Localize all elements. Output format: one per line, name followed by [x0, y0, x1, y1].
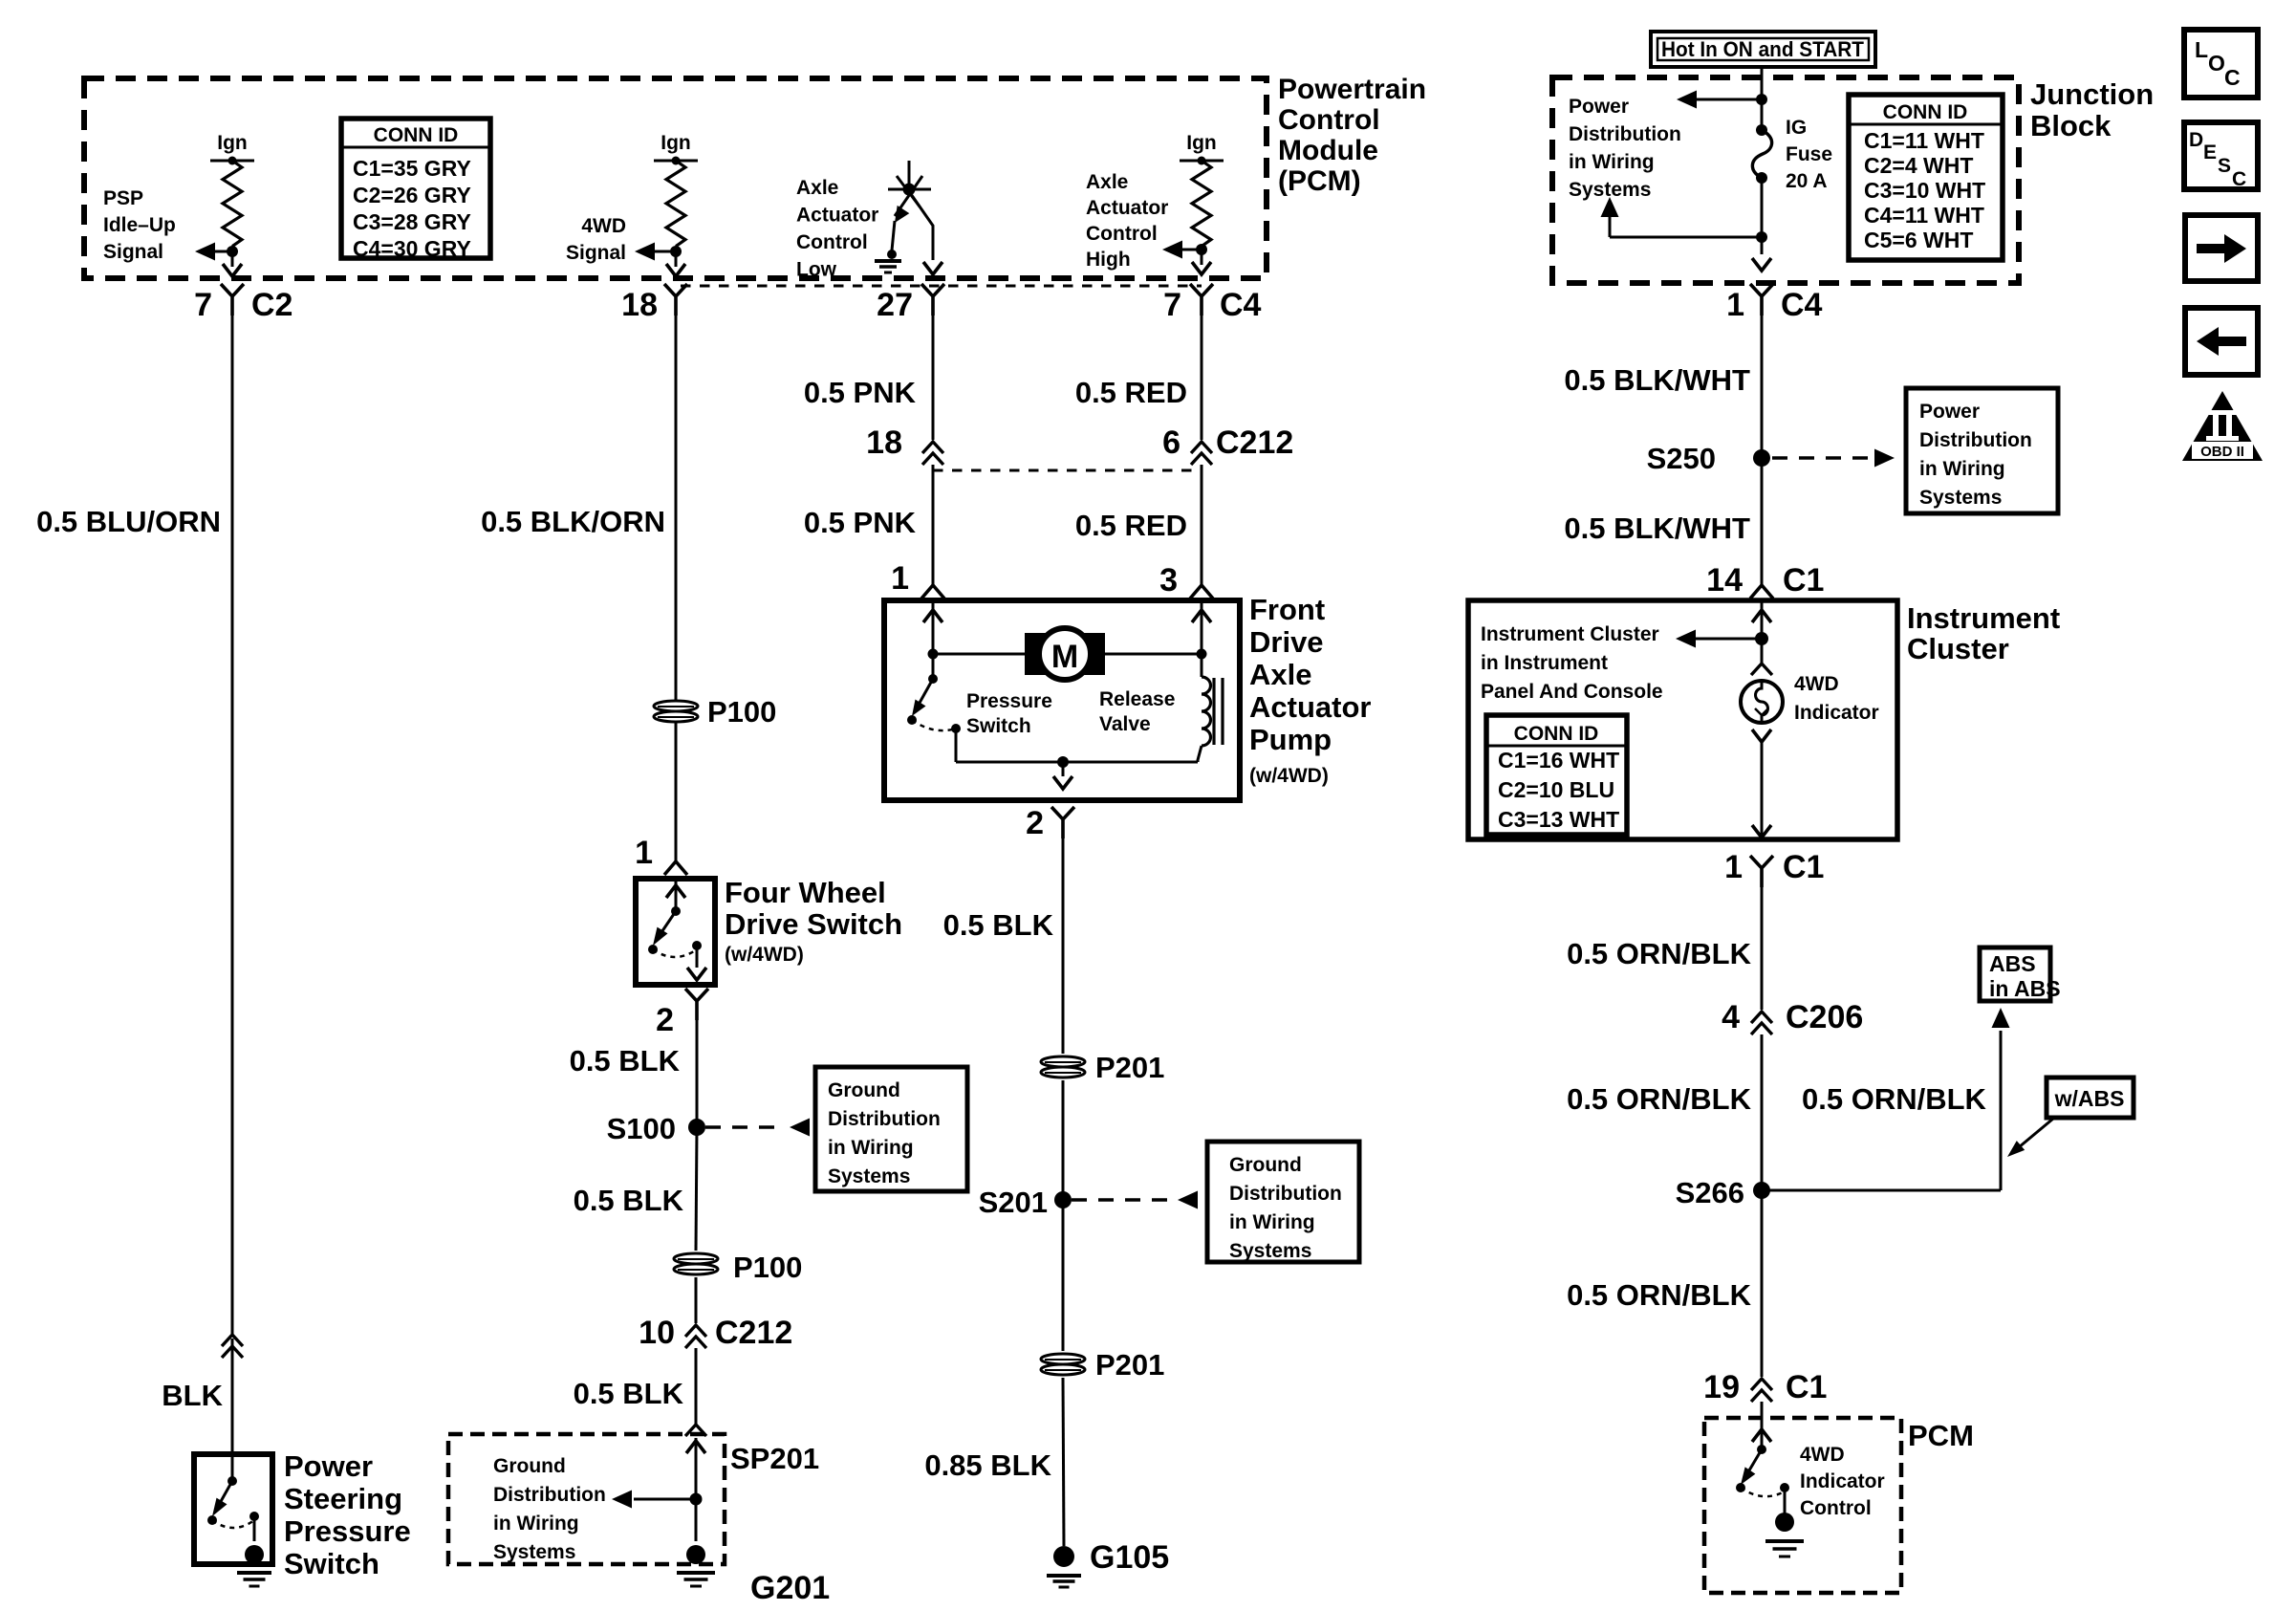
- svg-text:4WD: 4WD: [581, 215, 626, 237]
- connector C212 pin 6 chevrons: [1191, 442, 1212, 465]
- release valve coil: [1201, 654, 1203, 677]
- arrow to ground distribution (SP201): [612, 1491, 632, 1509]
- splice S266: [1753, 1182, 1770, 1199]
- w/ABS box: [2047, 1078, 2134, 1118]
- Four Wheel Drive Switch box: [636, 879, 715, 985]
- wire feed branch left: [1697, 98, 1762, 101]
- Instrument Cluster box: [1468, 600, 1897, 839]
- wire pump pin3 with up arrow: [1201, 600, 1203, 654]
- arrow up to ABS: [1992, 1008, 2010, 1028]
- svg-text:Indicator: Indicator: [1794, 702, 1879, 724]
- svg-text:C4: C4: [1220, 287, 1262, 323]
- arrow axle control high (left): [1162, 241, 1182, 259]
- svg-text:Junction: Junction: [2030, 77, 2154, 111]
- svg-text:0.5 RED: 0.5 RED: [1075, 376, 1187, 409]
- arrow to ground distribution (S100): [790, 1119, 810, 1137]
- svg-text:(w/4WD): (w/4WD): [1249, 765, 1329, 787]
- svg-text:in Instrument: in Instrument: [1481, 652, 1608, 674]
- svg-text:P100: P100: [733, 1251, 802, 1284]
- icon LOC box: [2184, 30, 2258, 98]
- svg-text:Systems: Systems: [1919, 487, 2002, 509]
- splice S201: [1054, 1191, 1072, 1208]
- svg-text:D: D: [2189, 129, 2203, 151]
- wire IC branch left: [1696, 638, 1762, 641]
- wire S266 branch right: [1762, 1189, 2001, 1192]
- svg-text:Distribution: Distribution: [1919, 429, 2032, 451]
- svg-text:Release: Release: [1099, 688, 1175, 710]
- arrow out of pump pin 2: [1062, 762, 1065, 776]
- node 4WD signal junction: [670, 246, 682, 257]
- wire 0.5 ORN/BLK middle: [1761, 1034, 1764, 1190]
- svg-text:Control: Control: [1086, 223, 1158, 245]
- wire S201 to P201 lower: [1062, 1200, 1065, 1351]
- wire lower branch up: [1609, 217, 1612, 237]
- svg-text:BLK: BLK: [162, 1379, 223, 1412]
- svg-text:Ground: Ground: [828, 1079, 900, 1101]
- svg-text:OBD II: OBD II: [2200, 444, 2244, 460]
- Ign supply tick (4WD): [654, 160, 698, 163]
- svg-text:14: 14: [1706, 562, 1743, 599]
- dashed reference line from S250: [1772, 456, 1872, 460]
- connector C212 pin 10 chevrons: [685, 1325, 706, 1348]
- ABS in ABS box: [1980, 947, 2050, 1001]
- svg-text:CONN ID: CONN ID: [1514, 723, 1599, 745]
- svg-text:M: M: [1051, 639, 1078, 675]
- Front Drive Axle Actuator Pump box: [884, 600, 1240, 800]
- wire SP201 branch left: [634, 1498, 696, 1501]
- node PCM driver contact right: [1780, 1483, 1789, 1492]
- svg-text:S201: S201: [979, 1186, 1048, 1219]
- svg-text:C212: C212: [715, 1315, 792, 1351]
- node PCM driver common: [1757, 1445, 1766, 1454]
- node 4WD switch contact right: [692, 941, 702, 950]
- svg-text:S266: S266: [1676, 1176, 1744, 1209]
- grommet P201 upper: [1041, 1056, 1085, 1078]
- svg-text:(PCM): (PCM): [1278, 165, 1361, 197]
- wire 4WD switch output: [696, 946, 699, 968]
- arrow w/ABS pointer: [2007, 1141, 2025, 1157]
- Ign supply tick (high): [1180, 160, 1224, 163]
- PCM module dashed box: [84, 78, 1267, 278]
- Power Distribution box (S250): [1906, 388, 2058, 513]
- svg-text:Switch: Switch: [966, 715, 1031, 737]
- svg-text:Systems: Systems: [493, 1541, 575, 1563]
- svg-text:Distribution: Distribution: [828, 1108, 941, 1130]
- svg-text:PCM: PCM: [1908, 1419, 1974, 1452]
- node SP201 splice: [690, 1493, 703, 1506]
- CONN ID table (PCM): [341, 119, 490, 258]
- wire 0.5 RED lower: [1201, 465, 1203, 585]
- arrow to ground distribution (S201): [1178, 1191, 1198, 1209]
- node 4WD switch common: [671, 906, 681, 916]
- svg-text:Instrument: Instrument: [1907, 601, 2060, 635]
- node pump release valve top: [1197, 649, 1207, 660]
- wire into SP201 with up arrow: [695, 1438, 698, 1499]
- arrow to power distribution (S250): [1874, 449, 1895, 468]
- svg-text:Hot In ON and START: Hot In ON and START: [1661, 37, 1865, 61]
- node PSP idle-up signal junction: [227, 246, 238, 257]
- grommet P100 lower: [674, 1253, 718, 1274]
- svg-text:Ign: Ign: [217, 132, 248, 154]
- svg-text:Ground: Ground: [493, 1455, 566, 1477]
- svg-text:1: 1: [1726, 287, 1744, 323]
- svg-text:Power: Power: [284, 1449, 373, 1483]
- svg-text:C2: C2: [251, 287, 292, 323]
- wire 0.85 BLK to G105: [1063, 1378, 1064, 1546]
- arrow PSP idle-up signal (left): [195, 243, 215, 261]
- Axle Actuator Control Low driver symbol: [908, 161, 911, 189]
- svg-text:C212: C212: [1216, 425, 1293, 461]
- node junction block feed: [1756, 94, 1767, 105]
- svg-text:Fuse: Fuse: [1786, 143, 1832, 165]
- svg-text:Four Wheel: Four Wheel: [725, 876, 886, 909]
- svg-text:C2=4 WHT: C2=4 WHT: [1864, 153, 1973, 178]
- svg-text:C2=26 GRY: C2=26 GRY: [353, 183, 471, 207]
- svg-text:27: 27: [877, 287, 913, 323]
- Power Steering Pressure Switch box: [194, 1454, 272, 1564]
- svg-text:in Wiring: in Wiring: [1919, 458, 2005, 480]
- svg-text:P201: P201: [1095, 1348, 1164, 1382]
- svg-text:C1: C1: [1786, 1369, 1827, 1405]
- wire 0.5 BLK S100 to P100: [696, 1127, 697, 1251]
- svg-text:10: 10: [639, 1315, 675, 1351]
- wire break chevrons (BLK): [222, 1335, 243, 1358]
- svg-text:L: L: [2195, 37, 2208, 62]
- PCM driver switch arm: [1744, 1449, 1762, 1480]
- wire pump pin1 with up arrow: [932, 600, 935, 654]
- icon DESC box: [2184, 122, 2258, 189]
- CONN ID table (instrument cluster): [1486, 715, 1627, 835]
- svg-text:C: C: [2224, 65, 2241, 90]
- svg-text:Signal: Signal: [566, 242, 626, 264]
- svg-text:Module: Module: [1278, 135, 1378, 166]
- svg-text:Axle: Axle: [796, 177, 838, 199]
- driver left branch to ground: [895, 206, 909, 223]
- Ground Distribution box (S201): [1207, 1142, 1359, 1262]
- svg-text:18: 18: [621, 287, 658, 323]
- svg-text:Instrument Cluster: Instrument Cluster: [1481, 623, 1659, 645]
- svg-text:Control: Control: [796, 231, 868, 253]
- svg-text:S100: S100: [607, 1112, 676, 1145]
- svg-text:S250: S250: [1647, 442, 1716, 475]
- svg-text:C206: C206: [1786, 999, 1863, 1035]
- wire 0.5 ORN/BLK lower: [1761, 1190, 1764, 1377]
- arrow out of PCM pin 7: [223, 264, 242, 276]
- PCM dashed box (bottom): [1704, 1418, 1901, 1593]
- svg-text:S: S: [2218, 155, 2231, 177]
- svg-text:Power: Power: [1919, 401, 1980, 423]
- svg-text:Front: Front: [1249, 593, 1325, 626]
- svg-text:19: 19: [1703, 1369, 1740, 1405]
- node PCM driver contact left: [1736, 1483, 1745, 1492]
- wire motor right: [1105, 653, 1202, 656]
- svg-text:0.5 BLK/ORN: 0.5 BLK/ORN: [481, 505, 665, 538]
- svg-text:C3=13 WHT: C3=13 WHT: [1498, 807, 1619, 832]
- wire to C212 pin 10: [695, 1277, 698, 1323]
- connector pin 2 of 4WD switch: [685, 989, 708, 1020]
- svg-text:C1: C1: [1783, 562, 1824, 599]
- dashed reference line from S201: [1072, 1198, 1174, 1202]
- svg-text:Systems: Systems: [1229, 1240, 1311, 1262]
- Ground Distribution box (S100): [815, 1067, 967, 1191]
- wire to four wheel drive switch: [675, 722, 678, 861]
- svg-text:18: 18: [866, 425, 902, 461]
- wire 0.5 BLK to S100: [696, 1001, 699, 1127]
- svg-text:in Wiring: in Wiring: [1229, 1211, 1315, 1233]
- wire release valve bottom: [1198, 746, 1202, 762]
- svg-text:7: 7: [1163, 287, 1181, 323]
- up arrow into PCM: [1752, 1429, 1771, 1442]
- svg-text:0.5 BLK/WHT: 0.5 BLK/WHT: [1564, 512, 1750, 545]
- svg-text:SP201: SP201: [730, 1442, 819, 1475]
- svg-text:Steering: Steering: [284, 1482, 402, 1515]
- svg-text:0.5 BLK/WHT: 0.5 BLK/WHT: [1564, 363, 1750, 397]
- connector C4 dashed line inside PCM bottom: [681, 285, 1202, 288]
- wire high down to pin: [1201, 250, 1203, 265]
- wire 0.5 RED upper: [1201, 296, 1203, 440]
- SP201 dashed box: [448, 1434, 725, 1564]
- svg-text:Switch: Switch: [284, 1547, 379, 1580]
- svg-text:Systems: Systems: [828, 1165, 910, 1187]
- wire SP201 to ground G201: [695, 1499, 698, 1541]
- wire PSP signal to arrow: [231, 247, 234, 251]
- resistor PSP pull-up: [223, 161, 242, 247]
- svg-text:G105: G105: [1090, 1539, 1169, 1576]
- PSP switch travel arc (dashed): [212, 1520, 254, 1528]
- wire 0.5 BLK/ORN: [675, 296, 678, 701]
- wire high to arrow: [1201, 247, 1203, 250]
- chevron above indicator: [1761, 639, 1764, 664]
- svg-text:High: High: [1086, 249, 1131, 271]
- svg-text:0.5 ORN/BLK: 0.5 ORN/BLK: [1567, 1082, 1752, 1116]
- svg-text:4WD: 4WD: [1800, 1444, 1845, 1466]
- 4WD indicator lamp: [1741, 681, 1783, 723]
- connector pin 14 C1: [1750, 585, 1773, 599]
- wire fuse to lower node: [1761, 178, 1764, 254]
- release valve core lines: [1212, 678, 1215, 745]
- w/ABS pointer line: [2019, 1119, 2053, 1147]
- wire into PSP switch: [231, 1454, 234, 1481]
- wire 4WD down to pin: [675, 251, 678, 267]
- wire motor left: [933, 653, 1025, 656]
- svg-text:0.5 BLK: 0.5 BLK: [943, 908, 1054, 942]
- svg-text:Actuator: Actuator: [796, 205, 878, 227]
- svg-text:Panel And Console: Panel And Console: [1481, 681, 1663, 703]
- arrow 4WD signal (left): [635, 243, 655, 261]
- connector C1 pin 19 chevrons: [1751, 1379, 1772, 1402]
- svg-text:Low: Low: [796, 259, 837, 281]
- svg-text:E: E: [2203, 142, 2217, 163]
- svg-text:(w/4WD): (w/4WD): [725, 944, 804, 966]
- svg-text:ABS: ABS: [1989, 951, 2036, 976]
- svg-text:20 A: 20 A: [1786, 170, 1828, 192]
- arrow power distribution (up): [1601, 197, 1619, 217]
- svg-text:Block: Block: [2030, 109, 2112, 142]
- node pressure switch left contact: [907, 715, 917, 725]
- svg-text:C3=10 WHT: C3=10 WHT: [1864, 178, 1985, 203]
- wire into instrument cluster with up arrow: [1761, 600, 1764, 639]
- svg-text:w/ABS: w/ABS: [2054, 1086, 2125, 1111]
- svg-text:0.5 BLK: 0.5 BLK: [574, 1184, 684, 1217]
- grommet P100 upper: [654, 701, 698, 722]
- svg-text:C2=10 BLU: C2=10 BLU: [1498, 777, 1614, 802]
- svg-text:Pressure: Pressure: [284, 1514, 411, 1548]
- motor M: [1025, 633, 1050, 675]
- svg-text:in ABS: in ABS: [1989, 976, 2061, 1001]
- svg-text:0.5 PNK: 0.5 PNK: [804, 376, 917, 409]
- wire 0.5 BLU/ORN: [231, 296, 234, 1337]
- svg-text:Distribution: Distribution: [1229, 1183, 1342, 1205]
- ground at PSP switch: [245, 1545, 264, 1564]
- svg-text:2: 2: [1026, 805, 1044, 841]
- node pump motor left: [928, 649, 939, 660]
- svg-text:P100: P100: [707, 695, 776, 729]
- wire indicator to bottom of IC: [1761, 742, 1764, 836]
- arrow power distribution (left): [1677, 91, 1697, 109]
- svg-text:4WD: 4WD: [1794, 673, 1839, 695]
- wire pressure switch to bottom bus: [955, 729, 958, 762]
- svg-text:P201: P201: [1095, 1051, 1164, 1084]
- node pressure switch right contact: [951, 724, 961, 733]
- Ign supply tick (PSP): [210, 160, 254, 163]
- connector pin 1 of 4WD switch: [664, 861, 687, 875]
- arrow out of PCM pin 27: [923, 262, 942, 274]
- svg-text:4: 4: [1722, 999, 1740, 1035]
- wire 0.5 PNK lower: [932, 465, 935, 585]
- PCM driver travel arc (dashed): [1741, 1488, 1785, 1496]
- svg-text:C1=35 GRY: C1=35 GRY: [353, 156, 471, 181]
- wire 0.5 BLK/WHT lower: [1761, 458, 1764, 585]
- svg-text:in Wiring: in Wiring: [493, 1513, 579, 1535]
- svg-text:0.5 ORN/BLK: 0.5 ORN/BLK: [1567, 937, 1752, 970]
- CONN ID table (junction block): [1849, 95, 2003, 260]
- arrow out of instrument cluster: [1752, 825, 1771, 838]
- svg-text:0.5 PNK: 0.5 PNK: [804, 506, 917, 539]
- svg-text:Drive Switch: Drive Switch: [725, 907, 902, 941]
- connector pin 3 of pump: [1190, 585, 1213, 599]
- wire P201 to S201: [1062, 1080, 1065, 1200]
- svg-text:in Wiring: in Wiring: [1569, 151, 1655, 173]
- chevron into SP201: [685, 1425, 706, 1436]
- icon left-arrow box: [2185, 308, 2258, 375]
- node PSP switch contact left: [207, 1515, 217, 1525]
- pressure switch arm: [915, 679, 933, 711]
- svg-text:O: O: [2208, 51, 2225, 76]
- svg-text:C1: C1: [1783, 849, 1824, 885]
- ground G105: [1053, 1546, 1074, 1567]
- svg-text:Ign: Ign: [1186, 132, 1217, 154]
- svg-text:C4=11 WHT: C4=11 WHT: [1864, 203, 1984, 228]
- svg-text:Signal: Signal: [103, 241, 163, 263]
- resistor 4WD signal pull-up: [666, 161, 685, 247]
- connector C212 dashed line: [933, 469, 1202, 472]
- arrow out of 4WD switch pin 2: [687, 968, 706, 980]
- 4WD switch arm: [656, 911, 676, 941]
- 4WD switch travel arc (dashed): [653, 949, 697, 957]
- connector C206 pin 4 chevrons: [1751, 1012, 1772, 1034]
- svg-text:CONN ID: CONN ID: [374, 124, 459, 146]
- svg-text:0.5 ORN/BLK: 0.5 ORN/BLK: [1802, 1082, 1987, 1116]
- arrow out of PCM pin 7 C4: [1192, 262, 1211, 274]
- connector C212 pin 18 chevrons: [922, 442, 943, 465]
- node 4WD switch contact left: [648, 945, 658, 954]
- svg-text:Cluster: Cluster: [1907, 632, 2009, 665]
- svg-text:Pump: Pump: [1249, 723, 1332, 756]
- svg-text:Power: Power: [1569, 96, 1629, 118]
- svg-text:0.5 BLU/ORN: 0.5 BLU/ORN: [36, 505, 221, 538]
- PSP switch arm: [215, 1481, 232, 1512]
- svg-text:Pressure: Pressure: [966, 690, 1052, 712]
- svg-text:Axle: Axle: [1249, 658, 1311, 691]
- connector pin 2 of pump: [1051, 807, 1074, 838]
- icon OBD II triangle: [2182, 391, 2263, 461]
- svg-text:7: 7: [194, 287, 212, 323]
- svg-text:Powertrain: Powertrain: [1278, 74, 1426, 105]
- connector pin 7 C2: [221, 284, 244, 316]
- wire 4WD signal to arrow: [675, 247, 678, 251]
- driver right branch to pin 27: [911, 194, 933, 260]
- svg-text:Axle: Axle: [1086, 171, 1128, 193]
- svg-text:C1=11 WHT: C1=11 WHT: [1864, 128, 1984, 153]
- svg-text:C4: C4: [1781, 287, 1823, 323]
- splice S100: [688, 1119, 705, 1136]
- svg-text:C4=30 GRY: C4=30 GRY: [353, 236, 471, 261]
- wire 0.5 ORN/BLK upper: [1761, 868, 1764, 1010]
- ground in PCM (4WD indicator control): [1775, 1513, 1794, 1532]
- wire 0.5 PNK upper: [932, 296, 935, 440]
- svg-text:PSP: PSP: [103, 187, 143, 209]
- chevron below indicator: [1752, 729, 1771, 742]
- svg-text:G201: G201: [750, 1570, 830, 1606]
- connector pin 27: [921, 284, 944, 316]
- node PSP switch common: [227, 1476, 237, 1486]
- svg-text:Valve: Valve: [1099, 713, 1151, 735]
- svg-text:CONN ID: CONN ID: [1883, 101, 1968, 123]
- arrow instrument cluster (left): [1676, 630, 1696, 648]
- wire hot feed into junction block: [1761, 67, 1764, 130]
- arrow out of junction block: [1752, 258, 1771, 271]
- svg-text:0.5 BLK: 0.5 BLK: [574, 1377, 684, 1410]
- svg-text:Actuator: Actuator: [1249, 690, 1371, 724]
- grommet P201 lower: [1041, 1354, 1085, 1375]
- svg-text:Ground: Ground: [1229, 1154, 1302, 1176]
- wire BLK to switch: [231, 1339, 234, 1454]
- node PSP switch contact right: [249, 1512, 259, 1521]
- svg-text:2: 2: [656, 1002, 674, 1038]
- wire lower branch left: [1610, 236, 1762, 239]
- wire 0.5 BLK pump to P201: [1062, 819, 1065, 1054]
- svg-text:Drive: Drive: [1249, 625, 1324, 659]
- splice S250: [1753, 449, 1770, 467]
- svg-text:C: C: [2232, 168, 2246, 190]
- connector pin 7 C4: [1190, 284, 1213, 316]
- svg-text:3: 3: [1159, 562, 1178, 599]
- svg-text:Control: Control: [1278, 104, 1380, 136]
- arrow out of PCM pin 18: [666, 264, 685, 276]
- pressure switch common node: [928, 674, 938, 684]
- node axle high junction: [1196, 244, 1207, 255]
- wire branch up to ABS: [2000, 1031, 2003, 1190]
- connector JB pin 1 C4: [1750, 284, 1773, 316]
- svg-text:6: 6: [1162, 425, 1180, 461]
- connector IC pin 1 C1: [1750, 856, 1773, 887]
- wire into PCM 4WD indicator control: [1761, 1402, 1764, 1449]
- svg-text:0.85 BLK: 0.85 BLK: [924, 1448, 1051, 1482]
- node pump output junction: [1057, 756, 1069, 768]
- svg-text:Distribution: Distribution: [1569, 123, 1681, 145]
- fuse IG 20A: [1756, 124, 1767, 136]
- svg-text:in Wiring: in Wiring: [828, 1137, 914, 1159]
